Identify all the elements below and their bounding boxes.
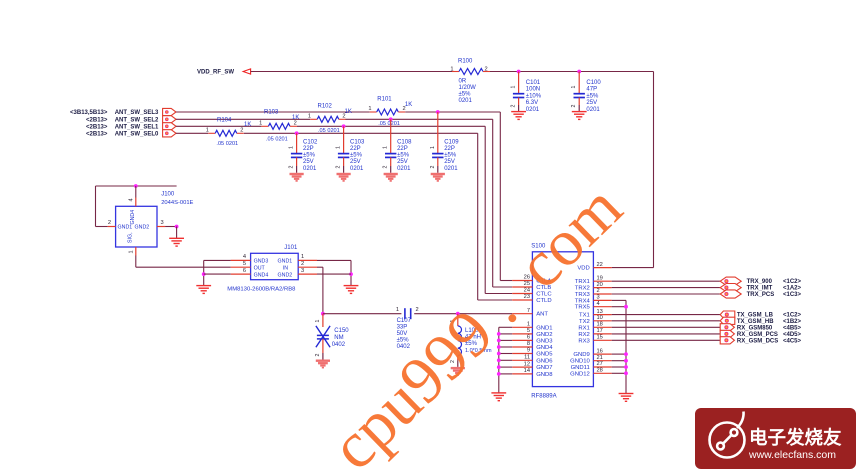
svg-text:±5%: ±5% [444, 153, 457, 159]
svg-text:<1C3>: <1C3> [783, 292, 802, 298]
svg-text:18: 18 [597, 322, 603, 328]
svg-text:19: 19 [597, 275, 603, 281]
svg-text:VDD_RF_SW: VDD_RF_SW [197, 70, 234, 76]
svg-text:TX_GSM_LB: TX_GSM_LB [737, 313, 774, 319]
svg-text:1K: 1K [405, 102, 412, 108]
svg-text:13: 13 [597, 309, 603, 315]
svg-text:2044S-001E: 2044S-001E [161, 200, 193, 206]
svg-text:<1C2>: <1C2> [783, 313, 802, 319]
svg-text:25V: 25V [586, 100, 597, 106]
svg-text:GND7: GND7 [536, 365, 552, 371]
svg-text:33P: 33P [397, 324, 408, 330]
svg-text:1: 1 [383, 146, 389, 149]
svg-text:22P: 22P [350, 146, 361, 152]
svg-text:20: 20 [597, 282, 603, 288]
svg-text:1: 1 [510, 86, 516, 89]
svg-text:25V: 25V [350, 159, 361, 165]
svg-text:2: 2 [108, 220, 111, 226]
svg-text:GND5: GND5 [536, 352, 553, 358]
svg-text:2: 2 [403, 106, 406, 112]
svg-text:1: 1 [336, 146, 342, 149]
svg-text:TX2: TX2 [579, 319, 590, 325]
svg-text:2: 2 [289, 166, 295, 169]
svg-text:MM8130-2600B/RA2/RB8: MM8130-2600B/RA2/RB8 [227, 287, 296, 293]
svg-text:10: 10 [597, 315, 603, 321]
svg-text:ANT_SW_SEL0: ANT_SW_SEL0 [115, 131, 159, 137]
svg-text:2: 2 [342, 113, 345, 119]
svg-text:1: 1 [129, 250, 135, 253]
svg-text:0201: 0201 [350, 166, 364, 172]
svg-text:1: 1 [450, 66, 453, 72]
svg-text:TRX3: TRX3 [575, 292, 591, 298]
svg-text:4: 4 [597, 301, 600, 307]
svg-text:R104: R104 [217, 118, 232, 124]
svg-text:22P: 22P [303, 146, 314, 152]
svg-text:25V: 25V [397, 159, 408, 165]
svg-text:3: 3 [161, 220, 164, 226]
svg-text:1: 1 [289, 146, 295, 149]
svg-text:C108: C108 [397, 139, 412, 145]
svg-text:C109: C109 [444, 139, 459, 145]
svg-text:GND4: GND4 [254, 272, 269, 278]
svg-text:1: 1 [396, 307, 399, 313]
svg-text:4: 4 [129, 198, 135, 201]
svg-text:.05 0201: .05 0201 [266, 137, 288, 143]
svg-text:22P: 22P [397, 146, 408, 152]
svg-text:ANT_SW_SEL2: ANT_SW_SEL2 [115, 117, 159, 123]
svg-text:2: 2 [510, 105, 516, 108]
svg-text:3: 3 [301, 268, 304, 274]
svg-text:2: 2 [301, 261, 304, 267]
svg-text:C107: C107 [397, 318, 412, 324]
svg-text:GND3: GND3 [254, 259, 269, 265]
svg-text:GND4: GND4 [536, 345, 553, 351]
svg-text:47P: 47P [586, 87, 597, 93]
svg-text:0201: 0201 [586, 107, 600, 113]
svg-text:GND9: GND9 [573, 352, 589, 358]
svg-text:6.3V: 6.3V [526, 100, 538, 106]
svg-text:12: 12 [524, 361, 530, 367]
svg-text:8: 8 [527, 341, 530, 347]
svg-text:GND12: GND12 [570, 371, 590, 377]
svg-text:<2B13>: <2B13> [86, 131, 108, 137]
svg-text:3: 3 [597, 295, 600, 301]
svg-text:0201: 0201 [526, 107, 540, 113]
svg-text:GND2: GND2 [135, 225, 150, 231]
svg-text:GND1: GND1 [278, 259, 293, 265]
svg-text:21: 21 [597, 355, 603, 361]
svg-text:RX2: RX2 [578, 332, 589, 338]
svg-text:GND2: GND2 [536, 332, 552, 338]
svg-text:TRX_900: TRX_900 [747, 279, 773, 285]
svg-text:TX1: TX1 [579, 313, 590, 319]
svg-text:0201: 0201 [459, 98, 473, 104]
svg-text:0402: 0402 [332, 342, 346, 348]
svg-text:<3B13,5B13>: <3B13,5B13> [70, 110, 108, 116]
svg-text:2: 2 [240, 127, 243, 133]
svg-text:<4C5>: <4C5> [783, 338, 802, 344]
svg-text:<4B5>: <4B5> [783, 325, 802, 331]
svg-text:22P: 22P [444, 146, 455, 152]
svg-text:RX1: RX1 [578, 325, 589, 331]
svg-text:电子发烧友: 电子发烧友 [749, 427, 842, 448]
svg-text:OUT: OUT [254, 266, 266, 272]
svg-text:ANT_SW_SEL3: ANT_SW_SEL3 [115, 110, 159, 116]
svg-text:.05 0201: .05 0201 [216, 141, 238, 147]
svg-text:TRX4: TRX4 [575, 298, 591, 304]
svg-text:GND3: GND3 [536, 338, 553, 344]
svg-text:R100: R100 [458, 59, 473, 65]
svg-text:2: 2 [485, 66, 488, 72]
svg-text:<2B13>: <2B13> [86, 117, 108, 123]
svg-text:4: 4 [243, 254, 246, 260]
svg-text:100N: 100N [526, 87, 540, 93]
svg-text:RX3: RX3 [578, 338, 590, 344]
svg-text:1: 1 [430, 146, 436, 149]
svg-text:1/20W: 1/20W [459, 85, 477, 91]
svg-text:2: 2 [294, 120, 297, 126]
svg-text:0R: 0R [459, 79, 467, 85]
svg-text:28: 28 [597, 368, 603, 374]
svg-text:0201: 0201 [303, 166, 317, 172]
svg-text:±5%: ±5% [459, 92, 472, 98]
svg-text:<4D5>: <4D5> [783, 332, 802, 338]
svg-text:www.elecfans.com: www.elecfans.com [748, 449, 836, 461]
svg-text:1K: 1K [345, 109, 352, 115]
svg-text:25V: 25V [444, 159, 455, 165]
svg-text:RX_GSM_PCS: RX_GSM_PCS [737, 332, 778, 338]
svg-text:GND8: GND8 [536, 372, 553, 378]
svg-text:±5%: ±5% [586, 93, 599, 99]
svg-text:SIG,: SIG, [128, 232, 134, 243]
svg-text:±10%: ±10% [526, 93, 542, 99]
svg-text:11: 11 [524, 355, 530, 361]
svg-text:2: 2 [336, 166, 342, 169]
svg-text:17: 17 [597, 328, 603, 334]
svg-text:1: 1 [571, 86, 577, 89]
svg-text:±5%: ±5% [303, 153, 316, 159]
svg-text:0201: 0201 [444, 166, 458, 172]
svg-text:GND4: GND4 [130, 210, 136, 225]
svg-text:1: 1 [315, 320, 321, 323]
svg-text:J100: J100 [161, 192, 175, 198]
svg-text:R103: R103 [264, 110, 279, 116]
svg-text:IN: IN [283, 266, 288, 272]
svg-text:50V: 50V [397, 331, 408, 337]
svg-text:5: 5 [243, 261, 246, 267]
svg-text:RF8889A: RF8889A [531, 393, 556, 399]
svg-text:22: 22 [597, 262, 603, 268]
svg-text:GND1: GND1 [118, 225, 133, 231]
svg-text:GND10: GND10 [570, 359, 590, 365]
svg-text:<2B13>: <2B13> [86, 124, 108, 130]
svg-text:2: 2 [416, 307, 419, 313]
svg-text:<1A2>: <1A2> [783, 286, 802, 292]
svg-text:GND6: GND6 [536, 358, 553, 364]
svg-text:1: 1 [368, 106, 371, 112]
svg-text:GND2: GND2 [278, 272, 293, 278]
svg-text:ANT_SW_SEL1: ANT_SW_SEL1 [115, 124, 159, 130]
svg-text:1: 1 [206, 127, 209, 133]
svg-text:C150: C150 [334, 328, 349, 334]
svg-text:TRX5: TRX5 [575, 305, 591, 311]
svg-text:GND1: GND1 [536, 325, 552, 331]
svg-text:NM: NM [334, 335, 343, 341]
svg-text:C101: C101 [526, 80, 541, 86]
svg-text:1K: 1K [244, 122, 251, 128]
svg-text:RX_GSM850: RX_GSM850 [737, 325, 773, 331]
svg-text:2: 2 [430, 166, 436, 169]
svg-text:<1B2>: <1B2> [783, 319, 802, 325]
svg-text:J101: J101 [284, 245, 298, 251]
svg-text:25V: 25V [303, 159, 314, 165]
svg-text:TRX_PCS: TRX_PCS [747, 292, 775, 298]
svg-text:2: 2 [383, 166, 389, 169]
svg-text:27: 27 [597, 361, 603, 367]
svg-text:TX_GSM_HB: TX_GSM_HB [737, 319, 774, 325]
svg-text:TRX_IMT: TRX_IMT [747, 286, 773, 292]
svg-text:TRX2: TRX2 [575, 286, 590, 292]
svg-text:9: 9 [527, 348, 530, 354]
svg-text:R101: R101 [377, 96, 392, 102]
svg-text:2: 2 [315, 354, 321, 357]
svg-text:<1C2>: <1C2> [783, 279, 802, 285]
svg-text:RX_GSM_DCS: RX_GSM_DCS [737, 338, 778, 344]
svg-text:15: 15 [597, 335, 603, 341]
svg-text:C102: C102 [303, 139, 318, 145]
svg-text:6: 6 [243, 268, 246, 274]
svg-text:R102: R102 [318, 104, 333, 110]
svg-text:16: 16 [597, 348, 603, 354]
svg-text:1: 1 [301, 254, 304, 260]
svg-text:6: 6 [527, 335, 530, 341]
svg-text:±5%: ±5% [397, 153, 410, 159]
svg-text:±5%: ±5% [350, 153, 363, 159]
svg-text:2: 2 [571, 105, 577, 108]
svg-text:GND11: GND11 [571, 365, 590, 371]
svg-text:2: 2 [597, 288, 600, 294]
svg-text:C103: C103 [350, 139, 365, 145]
svg-text:0201: 0201 [397, 166, 411, 172]
svg-text:1: 1 [259, 120, 262, 126]
svg-text:1: 1 [308, 113, 311, 119]
svg-text:5: 5 [527, 328, 530, 334]
svg-text:C100: C100 [586, 80, 601, 86]
svg-text:14: 14 [524, 368, 530, 374]
